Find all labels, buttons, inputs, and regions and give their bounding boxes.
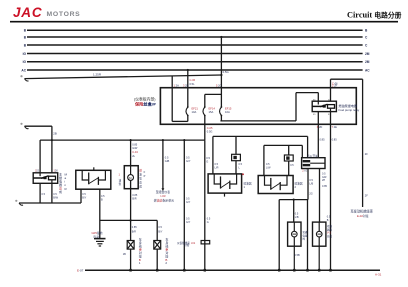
svg-text:喷油器: 喷油器 [295,182,303,186]
svg-text:C-06: C-06 [190,78,196,82]
svg-text:C-06: C-06 [332,82,338,86]
svg-text:IG: IG [23,60,27,64]
svg-text:G/W: G/W [132,146,138,150]
svg-text:0.5B: 0.5B [295,254,300,257]
svg-text:5 2C: 5 2C [216,83,222,87]
svg-text:2H: 2H [322,179,325,182]
svg-text:Fuel pump relay: Fuel pump relay [339,108,360,112]
svg-text:EF15: EF15 [225,107,232,111]
svg-text:EF14: EF14 [209,107,216,111]
svg-text:1B: 1B [123,253,126,256]
svg-text:B/W: B/W [53,196,58,199]
svg-text:至发动机舱线束: 至发动机舱线束 [351,209,374,214]
svg-text:E-02对接: E-02对接 [357,214,369,218]
svg-text:0.5G: 0.5G [223,70,229,74]
svg-text:IG: IG [23,52,27,56]
svg-text:喷油器: 喷油器 [244,182,252,186]
svg-text:10A: 10A [225,110,230,114]
svg-text:C-05: C-05 [207,126,213,130]
svg-text:P: P [144,174,146,178]
svg-text:G: G [207,221,209,224]
svg-text:B/Y: B/Y [82,196,86,199]
svg-text:0.85: 0.85 [132,226,137,229]
svg-text:3 2B: 3 2B [183,83,189,87]
svg-text:C-04: C-04 [132,150,138,154]
svg-text:燃油表指示单元: 燃油表指示单元 [154,197,174,202]
svg-text:油: 油 [139,173,142,177]
svg-text:1 2A: 1 2A [174,83,180,87]
svg-text:泵: 泵 [119,182,122,186]
svg-text:泵: 泵 [139,177,142,181]
svg-text:G/Y: G/Y [186,201,191,204]
svg-text:对接: 对接 [184,243,190,247]
svg-text:AC: AC [365,68,370,72]
svg-text:B/Y: B/Y [158,230,162,233]
svg-text:L/W: L/W [266,166,271,169]
svg-text:2G: 2G [309,192,312,195]
svg-text:0.85: 0.85 [332,138,338,142]
svg-text:G: G [206,160,208,164]
svg-text:G/Y: G/Y [186,221,191,224]
svg-text:15A: 15A [209,110,214,114]
svg-text:JAC: JAC [13,5,42,20]
svg-text:L/B: L/B [309,182,313,185]
svg-text:6 2D: 6 2D [317,125,323,129]
svg-text:MOTORS: MOTORS [47,11,81,18]
svg-text:0.5: 0.5 [206,156,210,160]
svg-text:0.85: 0.85 [132,143,138,147]
svg-text:(车身): (车身) [93,234,100,238]
svg-text:I-03: I-03 [161,194,166,198]
svg-text:2F: 2F [365,194,368,198]
svg-text:0.5L: 0.5L [190,82,196,86]
svg-text:G/B: G/B [165,159,170,163]
svg-text:L/R: L/R [215,166,219,169]
svg-text:燃: 燃 [139,169,142,173]
svg-text:L/B: L/B [295,216,299,219]
svg-text:0.85: 0.85 [322,185,327,188]
svg-text:A-31: A-31 [375,273,382,277]
svg-text:2M: 2M [365,60,370,64]
svg-text:0.5G: 0.5G [207,129,213,133]
svg-text:10A: 10A [192,110,197,114]
svg-text:2M: 2M [365,52,370,56]
svg-text:E-07: E-07 [77,269,84,273]
svg-text:B/R: B/R [132,197,136,200]
svg-text:0.5: 0.5 [165,155,169,159]
svg-text:7 2E: 7 2E [332,125,338,129]
svg-text:2F: 2F [365,152,368,156]
svg-text:0.5: 0.5 [186,155,190,159]
svg-text:点火开关: 点火开关 [307,154,318,158]
svg-text:AC: AC [21,68,26,72]
svg-text:0.85: 0.85 [320,138,326,142]
svg-text:Circuit 电路分册: Circuit 电路分册 [347,11,402,20]
svg-text:成: 成 [59,189,62,194]
svg-text:总: 总 [139,181,142,185]
svg-text:G/Y: G/Y [186,159,191,163]
svg-text:EF21: EF21 [192,107,199,111]
svg-text:总成: 总成 [327,234,333,238]
svg-text:0.5: 0.5 [290,164,294,167]
svg-text:0.5: 0.5 [42,193,46,196]
svg-text:B/R: B/R [132,230,136,233]
svg-text:油: 油 [119,179,122,183]
svg-text:1.25R: 1.25R [93,72,102,76]
svg-text:2B: 2B [53,132,57,136]
svg-text:0.5: 0.5 [158,226,162,229]
svg-text:保险丝盒I/P: 保险丝盒I/P [134,101,157,108]
svg-text:成: 成 [139,185,142,189]
